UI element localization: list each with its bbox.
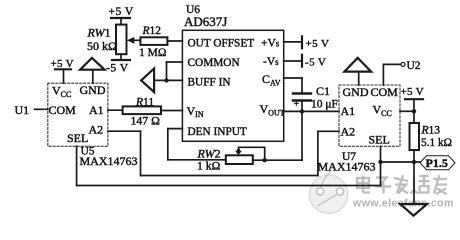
svg-text:1 MΩ: 1 MΩ: [139, 47, 166, 59]
ic U7 box: [339, 85, 400, 146]
svg-text:MAX14763: MAX14763: [318, 160, 376, 174]
ground (down triangle): [400, 204, 427, 216]
svg-text:R13: R13: [421, 125, 441, 137]
svg-text:-5 V: -5 V: [106, 63, 129, 75]
svg-text:RW1: RW1: [87, 26, 111, 40]
svg-text:RW2: RW2: [197, 147, 221, 161]
svg-text:147 Ω: 147 Ω: [131, 114, 161, 128]
svg-text:U1: U1: [15, 103, 30, 117]
svg-text:+: +: [294, 99, 300, 110]
power -5V (-Vs): [284, 55, 302, 67]
potentiometer RW2: [226, 147, 265, 164]
svg-text:A1: A1: [341, 104, 356, 118]
wire RW2 right: [253, 159, 302, 161]
resistor R13: [410, 123, 420, 150]
watermark chinese text: [357, 175, 447, 194]
svg-text:MAX14763: MAX14763: [80, 154, 138, 168]
node junction C1/VOUT: [300, 109, 304, 113]
svg-text:R11: R11: [135, 97, 154, 109]
svg-text:A1: A1: [89, 103, 104, 117]
node P1.5 flag: [420, 156, 455, 170]
wire DEN INPUT to RW2: [168, 129, 226, 160]
svg-text:+Vs: +Vs: [261, 38, 280, 50]
svg-text:GND: GND: [80, 83, 106, 97]
svg-text:+5 V: +5 V: [51, 58, 74, 70]
power +5V (top, RW1): [111, 18, 130, 25]
power +5V (U5 Vcc): [55, 69, 71, 83]
node junction R13/P1.5: [412, 160, 416, 164]
svg-text:+5 V: +5 V: [306, 38, 330, 50]
svg-text:SEL: SEL: [369, 133, 390, 147]
power +5V (right): [405, 99, 423, 123]
power +5V (+Vs): [284, 36, 302, 48]
wire COMMON: [167, 62, 183, 80]
svg-text:A2: A2: [89, 123, 104, 137]
wire bus lower (SEL-SEL): [77, 185, 381, 187]
capacitor C1: [293, 94, 311, 101]
node junction SEL: [378, 160, 382, 164]
svg-text:5.1 kΩ: 5.1 kΩ: [421, 137, 452, 149]
svg-text:C1: C1: [316, 84, 330, 98]
svg-text:AD637J: AD637J: [184, 14, 227, 29]
svg-text:COMMON: COMMON: [188, 57, 240, 69]
wire A2 (U7) down to bus: [318, 131, 339, 175]
potentiometer RW1: [116, 25, 140, 55]
node U2 circle: [401, 62, 405, 66]
wire VOUT to A1 (U7): [284, 110, 339, 112]
power -5V (RW1 bottom): [112, 54, 130, 60]
svg-text:R12: R12: [142, 25, 162, 37]
svg-text:+5 V: +5 V: [109, 6, 134, 18]
wire A1 to R11: [108, 109, 123, 111]
node junction VCC/R13: [412, 109, 416, 113]
svg-text:U2: U2: [407, 60, 421, 72]
svg-text:1 kΩ: 1 kΩ: [197, 160, 221, 173]
wire to ground: [413, 162, 415, 204]
svg-text:50 kΩ: 50 kΩ: [87, 39, 117, 53]
svg-text:SEL: SEL: [67, 131, 88, 145]
svg-text:10 μF: 10 μF: [311, 99, 338, 111]
svg-text:OUT OFFSET: OUT OFFSET: [188, 38, 255, 50]
wire bus upper (A2-A2): [141, 175, 318, 177]
resistor R12: [140, 37, 182, 45]
svg-text:DEN INPUT: DEN INPUT: [188, 126, 247, 138]
wire SEL (U5) down to bus: [76, 146, 78, 185]
wire riser Vout net: [301, 101, 303, 161]
ground triangle (U7 GND): [344, 58, 371, 85]
ground triangle (U5 GND): [80, 58, 105, 83]
wire U1 to COM: [35, 108, 44, 110]
watermark logo: [309, 171, 347, 213]
svg-text:P1.5: P1.5: [426, 156, 448, 170]
resistor R11: [123, 106, 183, 114]
svg-text:-5 V: -5 V: [305, 57, 326, 69]
svg-text:-Vs: -Vs: [263, 56, 279, 68]
svg-text:BUFF IN: BUFF IN: [188, 77, 231, 89]
svg-text:GND: GND: [343, 85, 369, 99]
svg-text:COM: COM: [49, 103, 77, 117]
ic U5 box: [48, 83, 108, 146]
node junction RW2 wiper: [237, 149, 241, 153]
svg-text:COM: COM: [371, 85, 399, 99]
wire R13 bottom: [413, 150, 415, 162]
wire COM (U7) to U2: [383, 64, 400, 85]
wire SEL (U7) down: [380, 146, 382, 185]
wire BUFF IN: [154, 79, 182, 81]
op-amp U6 box: [182, 30, 283, 141]
wire VCC (U7) stub: [400, 110, 414, 112]
wire CAV to C1: [284, 78, 302, 94]
wire A2 (U5) down to bus: [108, 131, 141, 175]
node junction RW2 loop: [263, 158, 267, 162]
svg-text:+5 V: +5 V: [401, 86, 424, 98]
common triangle symbol: [141, 69, 154, 93]
svg-text:A2: A2: [341, 125, 356, 139]
node junction BUFF IN: [164, 78, 168, 82]
wire SEL to P1.5: [381, 161, 421, 163]
